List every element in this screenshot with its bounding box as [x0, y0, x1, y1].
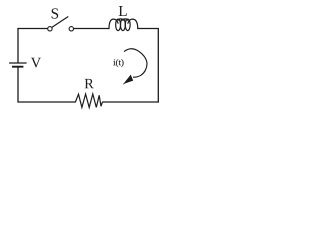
wire bottom-right segment — [103, 101, 159, 103]
wire right side — [157, 29, 159, 103]
arrow tip hairline — [123, 83, 125, 84]
label L — [119, 6, 127, 16]
resistor R — [75, 94, 102, 107]
wire between switch and inductor — [74, 28, 109, 30]
label i(t) — [113, 59, 123, 67]
switch S contacts — [48, 27, 74, 31]
wire left upper (corner to battery) — [17, 29, 19, 64]
arrowhead — [125, 76, 133, 84]
inductor L — [109, 19, 138, 31]
wire bottom-left segment — [18, 101, 75, 103]
label S — [52, 8, 59, 18]
wire left lower (battery to corner) — [17, 67, 19, 102]
current i(t) direction arc — [124, 49, 147, 77]
wire top-left segment — [18, 28, 48, 30]
battery V — [9, 63, 27, 67]
wire inductor to top-right corner — [138, 28, 159, 30]
switch lever — [52, 17, 68, 28]
label V — [31, 58, 41, 68]
label R — [85, 79, 94, 88]
